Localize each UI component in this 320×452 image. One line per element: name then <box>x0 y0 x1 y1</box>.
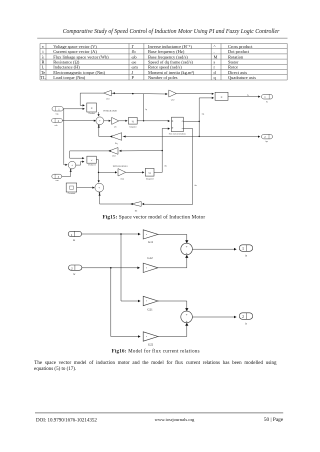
body paragraph <box>34 361 277 372</box>
svg-text:•: • <box>146 267 147 270</box>
wire sum d to product d <box>76 161 85 166</box>
footer rule <box>35 412 283 414</box>
svg-text:Fig15: Space vector model of I: Fig15: Space vector model of Induction M… <box>103 213 206 220</box>
wire constant to big sum <box>77 187 95 189</box>
svg-text:Te: Te <box>266 101 268 103</box>
gain wb1 (left pointing) <box>104 90 112 100</box>
svg-text:Product1: Product1 <box>88 164 96 166</box>
big sum d circle <box>95 183 104 192</box>
wire product d down to big sum top <box>96 160 100 183</box>
svg-text:G21: G21 <box>147 308 153 312</box>
svg-text:×: × <box>91 159 93 163</box>
wire lambda-s branch to G21 <box>121 234 141 302</box>
svg-text:+: + <box>186 313 188 317</box>
wire lambda-d riser to flux in2 <box>162 128 171 173</box>
integrator d block 1/s <box>145 168 154 180</box>
wire sum q to gain wb <box>104 120 111 122</box>
wire gain wb to integrator q <box>119 120 128 122</box>
svg-text:ir: ir <box>245 322 247 325</box>
wire flux out2 to ids drop <box>183 127 192 129</box>
product Te block <box>215 92 228 100</box>
outport 2 ir oval <box>239 313 252 326</box>
sum d circle <box>68 161 76 169</box>
constant block <box>66 183 77 195</box>
gain Rd (left pointing) bottom <box>131 202 141 213</box>
wire integrator d to lambda-d riser <box>154 171 162 173</box>
svg-text:•: • <box>146 336 147 339</box>
gain G12 <box>143 256 158 273</box>
inport 2 lambda-r <box>69 265 82 276</box>
svg-text:TL: TL <box>40 75 46 80</box>
svg-text:Integrator: Integrator <box>129 125 136 128</box>
svg-text:ids: ids <box>164 166 167 168</box>
wire lambda-r branch to G22 <box>111 268 141 338</box>
wire gain wb4 to integrator d <box>126 171 145 173</box>
svg-text:×: × <box>91 106 93 110</box>
wire lambda-q bus to wb1 and wb2 <box>111 92 167 95</box>
header rule <box>37 37 287 39</box>
outport 2 iqs oval <box>262 134 273 143</box>
wire G11 to sum1 top <box>158 234 188 243</box>
svg-text:2: 2 <box>71 267 73 271</box>
gain G11 <box>143 230 158 244</box>
svg-text:G12: G12 <box>147 256 153 260</box>
product Q block <box>87 103 97 115</box>
wire integrator q to flux block in1 <box>137 120 170 122</box>
wire G21 to sum2 top <box>158 301 188 311</box>
svg-text:Fig16: Model for flux current: Fig16: Model for flux current relations <box>112 350 200 355</box>
svg-text:wb1: wb1 <box>106 99 110 101</box>
svg-text:×: × <box>220 96 222 100</box>
svg-text:Constant: Constant <box>68 193 76 195</box>
INTEGRATOR1 text d <box>113 165 128 168</box>
svg-text:Quadrature axis: Quadrature axis <box>228 75 256 80</box>
caption Fig16 <box>112 350 200 355</box>
svg-text:Rq: Rq <box>115 142 117 145</box>
wire long d feedback bus to gain wb3 <box>119 150 162 152</box>
gain Rq (left pointing) on iqs bus <box>111 133 122 145</box>
wire vds to q-sum <box>62 120 96 122</box>
svg-text:G22: G22 <box>148 343 154 347</box>
svg-text:The space vector model of indu: The space vector model of induction moto… <box>34 361 277 366</box>
wire Rq output to sum q bottom <box>98 125 113 138</box>
sum2 circle <box>181 311 193 323</box>
integrator q block 1/s <box>128 118 137 129</box>
svg-text:λq: λq <box>145 108 147 111</box>
product d block <box>87 156 96 166</box>
wire wb1 feedback into product q <box>80 93 103 106</box>
wire iqs riser to product Te <box>199 97 215 137</box>
outport 1 is oval <box>239 245 252 258</box>
wire flux out1 to iqs riser <box>183 120 199 122</box>
gain G22 <box>143 332 158 347</box>
svg-text:wb3: wb3 <box>112 156 116 158</box>
footer text <box>36 417 284 423</box>
wire ids drop right side <box>193 128 198 204</box>
wire product Te to outport Te <box>228 95 260 98</box>
svg-text:50 | Page: 50 | Page <box>264 417 284 423</box>
svg-text:G11: G11 <box>148 240 154 244</box>
svg-text:ids: ids <box>195 185 198 187</box>
wire lambda-r to G12 <box>82 267 140 270</box>
outport Te oval <box>262 94 273 103</box>
wire wm to sum d bottom <box>62 169 72 177</box>
wire sum1 to outport is <box>192 248 236 251</box>
svg-text:Number of poles: Number of poles <box>148 75 178 80</box>
sum q circle <box>96 117 104 125</box>
svg-text:+: + <box>186 320 188 324</box>
svg-text:Integrator1: Integrator1 <box>146 177 154 180</box>
wire lambda-s to G11 <box>82 233 141 236</box>
svg-text:vqs: vqs <box>56 113 59 116</box>
gain wb2 (right pointing) <box>169 90 177 102</box>
svg-text:equations (5) to (17).: equations (5) to (17). <box>34 367 76 372</box>
svg-text:Comparative Study of Speed Con: Comparative Study of Speed Control of In… <box>63 28 280 35</box>
svg-text:wb2: wb2 <box>171 100 175 102</box>
svg-text:Flux current relations: Flux current relations <box>169 134 186 136</box>
gain wb3 (left pointing) <box>109 148 118 158</box>
svg-text:iqs: iqs <box>266 140 269 143</box>
svg-text:•: • <box>146 300 147 303</box>
page header title <box>63 28 280 35</box>
nomenclature table text <box>40 44 256 80</box>
svg-text:1: 1 <box>242 247 244 251</box>
wire G12 to sum1 bottom <box>158 255 188 268</box>
wire bottom feedback to Rd gain <box>142 203 193 205</box>
svg-text:λs: λs <box>73 239 75 242</box>
svg-text:INTEGRATOR: INTEGRATOR <box>103 110 117 113</box>
svg-text:is: is <box>245 254 247 257</box>
wire vqs to product q <box>63 108 85 110</box>
wire wb2 to product Te <box>176 93 214 95</box>
svg-text:λr: λr <box>73 273 75 276</box>
svg-text:www.iosrjournals.org: www.iosrjournals.org <box>155 417 195 422</box>
caption Fig15 <box>103 213 206 220</box>
svg-text:Te: Te <box>247 95 249 97</box>
wire Rd output to big sum bottom <box>99 192 133 205</box>
svg-text:wm: wm <box>55 180 59 182</box>
wire G22 to sum2 bottom <box>158 323 188 337</box>
wire sum2 to outport ir <box>192 316 236 319</box>
svg-text:+: + <box>186 252 188 256</box>
svg-text:DOI: 10.9790/1676-10214352: DOI: 10.9790/1676-10214352 <box>36 418 97 423</box>
wire iqs long bus to outport 2 <box>123 135 260 137</box>
gain wb (right pointing) <box>112 117 119 128</box>
flux current relations block <box>169 117 186 135</box>
svg-text:2: 2 <box>242 315 244 319</box>
gain G21 <box>143 296 158 311</box>
INTEGRATOR text q <box>103 110 117 113</box>
sum1 circle <box>181 243 193 255</box>
inport 2 vds <box>52 118 63 127</box>
svg-text:wb4: wb4 <box>120 178 124 180</box>
wire to gain wb4 d-axis <box>99 171 118 173</box>
svg-text:Product: Product <box>89 113 96 115</box>
nomenclature table grid <box>40 44 287 81</box>
svg-text:1: 1 <box>71 233 73 237</box>
svg-text:wb: wb <box>114 127 117 129</box>
svg-text:+: + <box>186 245 188 249</box>
wire wb3 output into product d <box>70 150 111 160</box>
svg-text:iqs: iqs <box>202 113 205 116</box>
svg-text:INTEGRATOR1: INTEGRATOR1 <box>113 165 128 168</box>
wire lambda-q riser <box>143 94 147 122</box>
svg-text:Load torque (Nm): Load torque (Nm) <box>53 75 85 80</box>
inport 1 lambda-s <box>68 231 81 242</box>
wire product q to sum q <box>98 112 100 116</box>
gain wb4 (right pointing) <box>118 169 126 181</box>
wire vqs branch down to d-sum <box>64 109 68 166</box>
svg-text:•: • <box>146 234 147 237</box>
inport 3 wm <box>52 174 62 182</box>
inport 1 vqs <box>52 107 63 116</box>
svg-text:vds: vds <box>55 125 58 127</box>
